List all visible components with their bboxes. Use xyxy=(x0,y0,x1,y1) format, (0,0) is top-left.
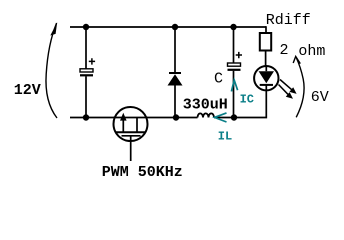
wire diode branch upper xyxy=(174,27,176,73)
transistor Q1 drain shaft xyxy=(136,118,138,133)
wire resistor bottom lead xyxy=(265,51,267,67)
node dot top middle xyxy=(172,24,178,30)
arrow 6V output xyxy=(296,58,304,118)
node dot top left xyxy=(83,24,89,30)
LED D2 cathode lead inside xyxy=(265,85,267,91)
wire left branch lower xyxy=(85,76,87,117)
node dot top right xyxy=(230,24,236,30)
node dot bottom right xyxy=(231,114,237,120)
svg-text:IL: IL xyxy=(218,129,232,143)
LED emission arrow upper xyxy=(280,80,292,90)
wire left branch upper xyxy=(85,27,87,69)
capacitor C1 bottom plate xyxy=(80,74,93,76)
wire diode branch lower xyxy=(174,85,176,118)
resistor Rdiff body xyxy=(260,33,271,51)
capacitor C1 plus sign xyxy=(89,58,95,64)
capacitor C2 bottom plate xyxy=(228,69,241,71)
svg-text:PWM 50KHz: PWM 50KHz xyxy=(102,164,183,181)
wire resistor top lead (corner from top rail) xyxy=(265,26,267,33)
diode D1 triangle xyxy=(168,74,183,85)
transistor Q1 channel bar xyxy=(115,131,146,133)
arrow 12V source xyxy=(46,23,57,118)
wire bottom rail left segment xyxy=(70,117,198,119)
node dot bottom left xyxy=(83,114,89,120)
diode D1 cathode bar xyxy=(169,72,181,74)
svg-text:IC: IC xyxy=(240,93,254,107)
svg-text:Rdiff: Rdiff xyxy=(266,12,311,29)
arrow IC teal arrowhead xyxy=(231,80,237,91)
wire top rail xyxy=(70,26,266,28)
arrow IL teal arrowhead xyxy=(215,113,227,122)
transistor Q1 gate lead xyxy=(130,136,132,161)
transistor Q1 source shaft xyxy=(122,118,124,133)
transistor Q1 internal wire xyxy=(114,117,148,119)
svg-text:C: C xyxy=(214,71,223,88)
wire bottom rail right segment with turn up to LED xyxy=(214,90,266,117)
svg-text:330uH: 330uH xyxy=(183,97,228,114)
LED emission arrow lower xyxy=(279,85,289,95)
LED D2 triangle xyxy=(259,71,274,83)
capacitor C2 top plate xyxy=(228,63,241,66)
transistor Q1 MOSFET circle xyxy=(114,107,148,141)
svg-text:2: 2 xyxy=(280,42,289,59)
inductor L1 coil xyxy=(198,113,215,117)
transistor Q1 source arrowhead xyxy=(120,113,127,121)
svg-text:ohm: ohm xyxy=(298,43,325,60)
LED D2 cathode bar xyxy=(260,84,273,86)
svg-text:6V: 6V xyxy=(311,89,329,106)
capacitor C2 plus sign xyxy=(236,52,242,58)
capacitor C1 electrolytic top plate xyxy=(80,69,93,72)
wire C branch upper xyxy=(233,27,235,63)
LED D2 circle xyxy=(254,66,278,90)
transistor Q1 gate bar xyxy=(122,135,141,137)
svg-text:12V: 12V xyxy=(14,82,41,99)
wire C branch lower xyxy=(233,71,235,118)
LED D2 anode lead inside xyxy=(265,66,267,71)
node dot bottom middle xyxy=(173,114,179,120)
